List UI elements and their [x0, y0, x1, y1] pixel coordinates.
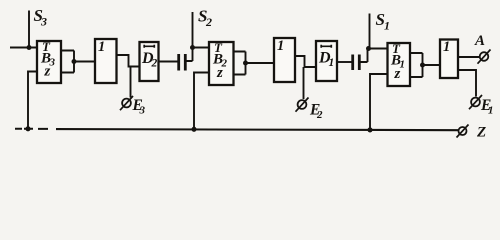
- terminal Z circle: [459, 127, 467, 135]
- svg-text:z: z: [216, 65, 223, 81]
- capacitor C2: [179, 54, 186, 71]
- wire: z pin of B2 to Z bus: [194, 73, 209, 130]
- wire: B2 to inverter 1: [246, 62, 275, 64]
- terminal E3 circle: [122, 99, 131, 108]
- wire: output to terminal E1: [458, 70, 476, 97]
- svg-text:z: z: [394, 66, 401, 82]
- svg-text:A: A: [474, 33, 485, 49]
- trigger U3 (T B3 z): [37, 41, 61, 83]
- wire: inverter out jog to D1: [295, 56, 316, 67]
- wire: input to trigger B1: [369, 48, 388, 50]
- node: S3 input junction: [27, 45, 32, 50]
- delay symbol D1: [321, 45, 333, 48]
- wire: drop to terminal E2: [303, 67, 305, 99]
- node: B2 output junction: [243, 61, 248, 66]
- inverter block 1 (stage 1): [440, 40, 458, 79]
- inverter block 1 (stage 3): [95, 39, 117, 83]
- trigger U1 (T B1 z): [388, 43, 411, 86]
- wire S1 vertical: [369, 14, 371, 49]
- svg-text:1: 1: [443, 39, 450, 55]
- svg-text:Z: Z: [476, 125, 486, 141]
- wire: input to trigger B2: [193, 47, 210, 49]
- node: bus junction stage 3: [25, 126, 30, 131]
- wire: Z bus: [56, 129, 458, 130]
- node: bus junction stage 1: [367, 127, 372, 132]
- wire: drop to terminal E3: [130, 67, 132, 98]
- wire: input to trigger B3: [10, 47, 37, 49]
- wire: Z bus dashed left part: [15, 128, 48, 130]
- wire: B3 output stubs: [61, 51, 74, 73]
- svg-text:2: 2: [151, 58, 158, 70]
- node: S1 input junction: [366, 46, 371, 51]
- node: S2 input junction: [190, 45, 195, 50]
- trigger U2 (T B2 z): [209, 42, 234, 85]
- svg-text:1: 1: [329, 57, 335, 69]
- inverter block 1 (stage 2): [274, 38, 295, 82]
- svg-text:1: 1: [488, 105, 494, 117]
- svg-text:1: 1: [277, 38, 284, 54]
- node: B3 output junction: [72, 59, 77, 64]
- capacitor C1: [353, 55, 360, 71]
- node: B1 output junction: [420, 63, 425, 68]
- wire: output A: [458, 56, 479, 58]
- wire: B3 to inverter 1: [74, 61, 95, 63]
- wire S3 vertical: [28, 11, 30, 48]
- svg-text:1: 1: [98, 39, 105, 55]
- terminal A circle: [480, 52, 489, 61]
- wire: z pin of B3 to Z bus: [28, 72, 37, 129]
- wire: B1 output stubs: [410, 53, 423, 77]
- paper background: [0, 0, 500, 144]
- wire S2 vertical: [192, 12, 194, 48]
- svg-text:2: 2: [316, 109, 323, 121]
- node: bus junction stage 2: [191, 127, 196, 132]
- wire: B1 to inverter 1: [423, 64, 441, 66]
- svg-text:3: 3: [139, 105, 146, 117]
- svg-text:1: 1: [384, 19, 390, 33]
- wire: inverter out jog to D2: [117, 55, 140, 67]
- svg-text:z: z: [44, 64, 51, 80]
- delay block D2: [140, 42, 159, 81]
- wire: C1 to riser: [361, 49, 368, 63]
- terminal E2 circle: [298, 100, 307, 109]
- delay symbol D2: [144, 45, 156, 48]
- wire: z pin of B1 to Z bus: [370, 74, 388, 130]
- svg-text:3: 3: [40, 15, 47, 29]
- wire: B2 output stubs: [234, 52, 246, 75]
- terminal E1 circle: [471, 98, 480, 107]
- wire: C2 to riser: [187, 48, 193, 62]
- wire: D1 to capacitor C1: [337, 61, 352, 63]
- delay block D1: [316, 41, 337, 81]
- svg-text:2: 2: [205, 15, 212, 29]
- wire: D2 to capacitor C2: [159, 61, 178, 63]
